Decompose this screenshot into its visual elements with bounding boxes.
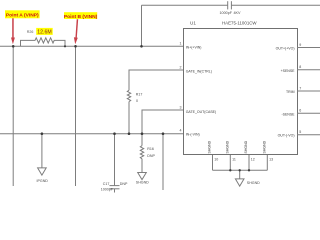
value highlight 12.6M (R26)	[36, 28, 53, 36]
svg-text:TRIM: TRIM	[286, 90, 295, 94]
ground IPGND	[38, 168, 47, 175]
wire C17 drop	[114, 134, 116, 186]
svg-text:Point A (VINP): Point A (VINP)	[6, 13, 39, 19]
junction node B	[74, 45, 77, 48]
svg-text:SHGND: SHGND	[244, 140, 248, 153]
svg-text:12: 12	[251, 157, 255, 161]
op-amp U1 module box	[184, 29, 298, 155]
junction node shield bus 1	[229, 169, 231, 171]
wire pin 3 GATE_OUT	[142, 110, 184, 134]
svg-text:SHGND: SHGND	[247, 181, 260, 185]
svg-text:+SENSE: +SENSE	[281, 69, 296, 73]
arrow Point B	[74, 19, 78, 44]
junction node cap riser	[140, 45, 143, 48]
ground SHGND (shield)	[235, 179, 244, 186]
ground SHGND (R16)	[138, 173, 147, 180]
svg-text:HAE75-11001CW: HAE75-11001CW	[222, 21, 257, 26]
resistor R26	[21, 38, 66, 47]
svg-text:9: 9	[299, 43, 301, 47]
pin 6 stub	[297, 112, 320, 114]
svg-text:R16: R16	[147, 147, 154, 151]
capacitor C17	[110, 185, 120, 187]
junction node IPGND	[41, 132, 44, 135]
svg-text:8: 8	[299, 65, 301, 69]
svg-text:3: 3	[180, 105, 182, 109]
pin 9 stub	[297, 47, 320, 49]
junction node C17	[113, 132, 116, 135]
pin name labels inside U1	[186, 46, 295, 138]
wire drop at x163	[162, 134, 164, 190]
svg-text:DNP: DNP	[120, 182, 128, 186]
svg-text:0: 0	[136, 99, 138, 103]
svg-text:4: 4	[180, 129, 182, 133]
wire IPGND drop	[41, 134, 43, 168]
svg-text:R17: R17	[136, 93, 143, 97]
svg-text:U1: U1	[190, 21, 196, 26]
resistor R16	[140, 146, 143, 159]
wire bottom bus (to pin 4 IN-)	[0, 133, 184, 135]
pin 10 stub	[212, 155, 214, 170]
pin 5 stub	[297, 134, 320, 136]
junction node R17	[128, 132, 131, 135]
svg-text:13: 13	[269, 157, 273, 161]
svg-text:IN+(+VIN): IN+(+VIN)	[186, 46, 202, 50]
svg-text:OUT+(+VO): OUT+(+VO)	[276, 47, 295, 51]
svg-text:-SENSE: -SENSE	[281, 112, 295, 116]
svg-text:1: 1	[180, 42, 182, 46]
svg-text:Point B (VINN): Point B (VINN)	[64, 14, 98, 20]
wire R17 to bus	[128, 102, 130, 134]
svg-text:4KV: 4KV	[234, 11, 242, 15]
svg-text:GATE_IN(CTRL): GATE_IN(CTRL)	[186, 70, 212, 74]
wire cap left	[142, 4, 228, 6]
wire R16 to ground	[141, 159, 143, 173]
svg-text:10: 10	[214, 157, 218, 161]
svg-text:GATE_OUT(CASE): GATE_OUT(CASE)	[186, 110, 216, 114]
wire vertical at Point B	[75, 46, 77, 186]
resistor R17	[127, 90, 130, 101]
junction node A	[12, 45, 15, 48]
junction node R26 right	[64, 45, 66, 47]
label Point B (VINN)	[64, 12, 98, 20]
pin 7 stub	[297, 90, 320, 92]
pin numbers	[180, 42, 302, 162]
svg-text:R26: R26	[27, 30, 34, 34]
svg-text:SHGND: SHGND	[136, 180, 149, 184]
wire shield bus	[213, 169, 268, 171]
junction node shield bus 2	[248, 169, 250, 171]
wire cap right	[231, 4, 320, 6]
svg-text:5: 5	[299, 130, 301, 134]
junction node pin3/R16	[141, 132, 144, 135]
svg-text:SHGND: SHGND	[208, 140, 212, 153]
svg-text:2: 2	[180, 65, 182, 69]
svg-text:SHGND: SHGND	[263, 140, 267, 153]
svg-text:6: 6	[299, 109, 301, 113]
svg-text:C17: C17	[103, 182, 110, 186]
wire shield stem	[239, 170, 241, 179]
wire capacitor riser	[141, 5, 143, 46]
pin 11 stub	[229, 155, 231, 170]
wire top horizontal (VIN+ to pin 1)	[0, 45, 184, 47]
pin 13 stub	[266, 155, 268, 170]
svg-text:1000pF: 1000pF	[220, 11, 233, 15]
svg-text:OUT-(-VO): OUT-(-VO)	[278, 134, 295, 138]
pin 12 stub	[248, 155, 250, 170]
svg-text:11: 11	[232, 157, 236, 161]
svg-text:7: 7	[299, 86, 301, 90]
label Point A (VINP)	[5, 10, 40, 18]
svg-text:IN-(-VIN): IN-(-VIN)	[186, 133, 200, 137]
capacitor C (1000pF 4KV)	[227, 1, 229, 9]
wire pin3 down to R16	[141, 134, 143, 146]
svg-text:SHGND: SHGND	[226, 140, 230, 153]
arrow Point A	[11, 18, 15, 44]
svg-text:DNP: DNP	[147, 154, 155, 158]
svg-text:IPGND: IPGND	[37, 179, 49, 183]
wire vertical at Point A	[12, 46, 14, 186]
svg-text:1000pF: 1000pF	[101, 188, 114, 192]
wire pin 2 GATE_IN	[129, 70, 184, 90]
junction node shield stem	[239, 169, 241, 171]
junction node x163	[162, 132, 165, 135]
pin 8 stub	[297, 69, 320, 71]
rotated pin labels SHGND on bottom pins	[208, 140, 267, 153]
svg-text:12.6M: 12.6M	[37, 30, 51, 36]
